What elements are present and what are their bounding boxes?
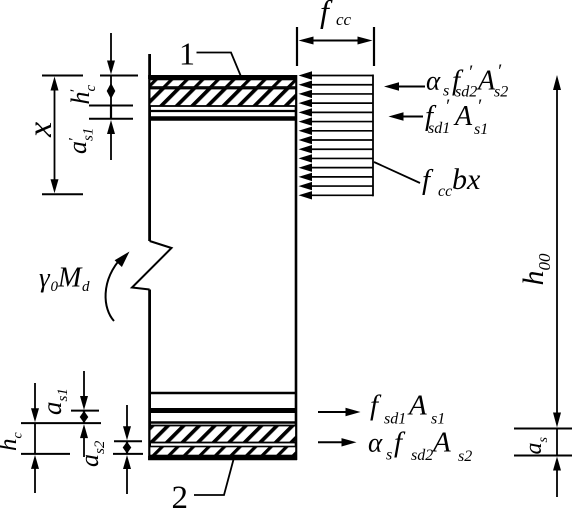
svg-text:x: x	[22, 122, 59, 138]
svg-text:s1: s1	[431, 411, 445, 428]
svg-text:sd2: sd2	[455, 84, 477, 101]
svg-text:sd1: sd1	[428, 120, 450, 137]
svg-text:h: h	[517, 271, 550, 286]
svg-text:bx: bx	[452, 163, 481, 196]
svg-text:a: a	[37, 402, 67, 416]
svg-text:α: α	[426, 66, 441, 96]
svg-text:sd1: sd1	[384, 411, 406, 428]
svg-text:a: a	[75, 454, 104, 467]
svg-text:2: 2	[172, 480, 189, 510]
svg-text:c: c	[11, 432, 26, 439]
svg-text:a: a	[63, 141, 92, 154]
svg-text:cc: cc	[336, 10, 352, 29]
svg-text:s2: s2	[458, 448, 472, 465]
svg-text:00: 00	[535, 253, 554, 271]
svg-text:M: M	[57, 263, 83, 294]
svg-text:d: d	[82, 279, 90, 295]
svg-text:A: A	[407, 390, 427, 422]
svg-text:a: a	[521, 443, 547, 455]
svg-text:A: A	[431, 427, 451, 459]
svg-text:A: A	[453, 101, 473, 132]
svg-text:s1: s1	[81, 128, 97, 141]
svg-text:c: c	[83, 85, 99, 92]
svg-text:s: s	[386, 447, 392, 464]
svg-text:A: A	[476, 66, 496, 97]
svg-text:s1: s1	[474, 121, 488, 138]
svg-text:sd2: sd2	[411, 447, 433, 464]
svg-text:s2: s2	[494, 84, 508, 101]
svg-text:h: h	[0, 439, 22, 452]
svg-text:γ: γ	[39, 263, 51, 293]
svg-text:1: 1	[179, 35, 195, 71]
svg-text:cc: cc	[438, 183, 452, 200]
svg-text:α: α	[368, 428, 383, 458]
svg-text:s1: s1	[55, 388, 71, 401]
svg-text:s: s	[536, 437, 551, 443]
svg-text:s2: s2	[92, 440, 108, 454]
